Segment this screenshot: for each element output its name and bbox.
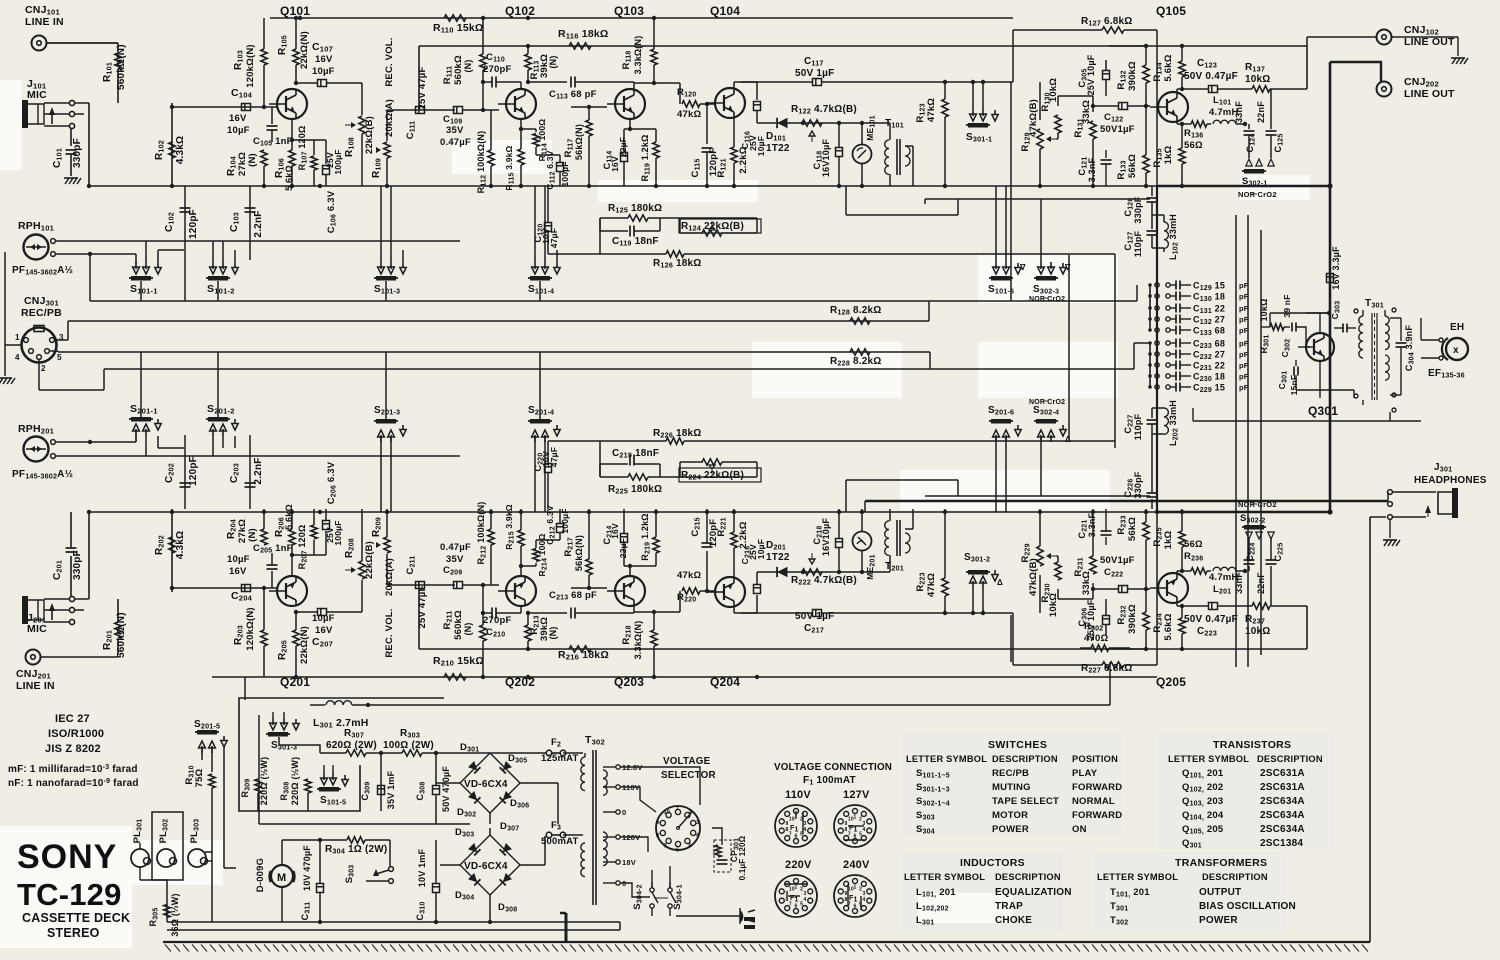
resistor R125 xyxy=(600,203,757,221)
svg-text:10kΩ: 10kΩ xyxy=(1259,298,1269,321)
capacitor C118 xyxy=(812,509,843,572)
transistor Q102 xyxy=(498,89,536,119)
resistor R107 xyxy=(292,509,317,569)
wire collector Q105 xyxy=(1177,603,1208,608)
svg-text:47kΩ: 47kΩ xyxy=(677,570,701,581)
switch S101-5 xyxy=(317,765,348,807)
svg-text:1: 1 xyxy=(676,806,679,812)
svg-text:R204: R204 xyxy=(226,519,238,539)
emitter resistor R115 xyxy=(504,119,524,191)
capacitor C311 xyxy=(300,840,324,922)
resistor R131 xyxy=(1073,509,1096,599)
switch S302-4 xyxy=(1029,399,1071,444)
switch S302-2 xyxy=(1238,500,1277,539)
svg-text:F1 100mAT: F1 100mAT xyxy=(803,775,856,787)
label VOLTAGE CONNECTION xyxy=(774,762,892,787)
svg-text:C203: C203 xyxy=(229,463,241,483)
svg-text:S301-1: S301-1 xyxy=(966,132,992,144)
svg-text:R105: R105 xyxy=(277,35,289,55)
svg-text:Q205: Q205 xyxy=(1156,675,1186,689)
svg-text:6: 6 xyxy=(676,848,679,854)
pot R122 xyxy=(791,553,857,587)
svg-text:7: 7 xyxy=(789,832,792,838)
table SWITCHES xyxy=(906,739,1118,764)
wire osc connections xyxy=(1193,311,1421,430)
wire J101 to bus xyxy=(72,103,91,188)
svg-text:10µF: 10µF xyxy=(312,66,335,77)
wire feedback to stage xyxy=(600,441,757,509)
svg-text:110pF: 110pF xyxy=(1133,413,1143,440)
svg-text:ISO/R1000: ISO/R1000 xyxy=(48,728,104,740)
svg-text:R101: R101 xyxy=(102,62,114,82)
svg-text:1T22: 1T22 xyxy=(766,552,790,563)
svg-text:5.6kΩ: 5.6kΩ xyxy=(284,165,294,191)
resistor R105 xyxy=(277,18,310,85)
jack J201 MIC xyxy=(22,596,75,635)
resistor R102 xyxy=(154,136,186,164)
svg-text:D101: D101 xyxy=(766,131,786,143)
svg-text:R225 180kΩ: R225 180kΩ xyxy=(608,484,662,496)
svg-text:ON: ON xyxy=(1072,824,1087,835)
switch S201-2 xyxy=(206,403,238,456)
svg-text:10µF: 10µF xyxy=(312,613,335,624)
svg-text:S302-3: S302-3 xyxy=(1033,284,1059,296)
switch S201-1 xyxy=(129,403,184,456)
connector CNJ301 REC/PB xyxy=(15,295,64,373)
svg-text:4.3kΩ: 4.3kΩ xyxy=(175,531,186,559)
svg-text:INDUCTORS: INDUCTORS xyxy=(960,857,1025,869)
capacitor C105 xyxy=(253,543,293,588)
resistor R131 xyxy=(1073,96,1096,186)
resistor R113 xyxy=(525,44,558,84)
svg-text:R216 18kΩ: R216 18kΩ xyxy=(558,649,609,662)
svg-text:PLAY: PLAY xyxy=(1072,768,1098,779)
svg-text:1kΩ: 1kΩ xyxy=(1163,530,1174,549)
svg-text:2SC631A: 2SC631A xyxy=(1260,782,1305,793)
label Q103 xyxy=(614,4,644,18)
svg-text:R205: R205 xyxy=(277,640,289,660)
rectifier bridge D301 D302 D305 D306 xyxy=(436,742,558,824)
volume R108 xyxy=(344,83,375,186)
volume R109 REC VOL xyxy=(371,37,395,186)
capacitor C231 xyxy=(1148,361,1249,373)
svg-text:R227 6.8kΩ: R227 6.8kΩ xyxy=(1081,663,1132,675)
svg-text:Q201: Q201 xyxy=(280,675,310,689)
volume R108 xyxy=(344,509,375,612)
capacitor C109 xyxy=(440,107,499,149)
capacitor C105 xyxy=(253,107,293,148)
svg-text:SELECTOR: SELECTOR xyxy=(661,770,716,781)
capacitor C124 xyxy=(1234,101,1257,158)
svg-text:MIC: MIC xyxy=(27,89,47,101)
capacitor C123 xyxy=(1184,603,1252,638)
resistor R118 xyxy=(621,18,657,83)
resistor R119 xyxy=(640,129,659,186)
svg-text:110pF: 110pF xyxy=(1133,230,1143,257)
resistor R303 xyxy=(381,728,455,760)
table row T301 xyxy=(1110,901,1296,913)
svg-text:1: 1 xyxy=(15,333,20,342)
svg-text:22nF: 22nF xyxy=(1256,101,1266,123)
table INDUCTORS xyxy=(904,857,1061,882)
svg-text:2SC631A: 2SC631A xyxy=(1260,768,1305,779)
svg-text:S101-4: S101-4 xyxy=(528,284,554,296)
capacitor C201 xyxy=(52,512,83,596)
svg-text:50V 470µF: 50V 470µF xyxy=(441,766,451,812)
svg-text:REC/PB: REC/PB xyxy=(21,307,62,319)
svg-text:S101-3: S101-3 xyxy=(374,284,400,296)
svg-text:0.47µF: 0.47µF xyxy=(440,137,471,148)
svg-text:VOLTAGE: VOLTAGE xyxy=(663,756,711,767)
svg-text:CASSETTE DECK: CASSETTE DECK xyxy=(22,911,130,925)
switch S304-2 xyxy=(632,882,658,916)
svg-text:75Ω: 75Ω xyxy=(194,768,205,787)
capacitor C102 xyxy=(164,435,199,509)
svg-text:(N): (N) xyxy=(247,528,258,542)
svg-text:2SC634A: 2SC634A xyxy=(1260,796,1305,807)
svg-text:C123: C123 xyxy=(1197,58,1217,70)
capacitor C115 xyxy=(690,104,719,186)
svg-text:C105 1nF: C105 1nF xyxy=(253,136,293,148)
wire trap row ch2 xyxy=(1152,408,1164,481)
svg-text:D-009G: D-009G xyxy=(255,858,266,892)
svg-text:4: 4 xyxy=(15,353,20,362)
capacitor C104 xyxy=(227,87,253,136)
capacitor C233 xyxy=(1148,339,1249,351)
svg-text:R125 180kΩ: R125 180kΩ xyxy=(608,203,662,215)
svg-text:10V 470µF: 10V 470µF xyxy=(302,845,312,891)
svg-text:10: 10 xyxy=(848,816,854,822)
resistor R118 xyxy=(621,612,657,677)
wire selector to transformer xyxy=(620,866,670,888)
capacitor C107 xyxy=(296,609,362,649)
svg-text:10: 10 xyxy=(789,886,795,892)
capacitor C127 xyxy=(1123,215,1158,257)
svg-text:R137: R137 xyxy=(1245,62,1265,74)
capacitor C106 xyxy=(314,140,343,233)
label Q105 xyxy=(1156,4,1186,18)
svg-text:2SC634A: 2SC634A xyxy=(1260,810,1305,821)
resistor R134 xyxy=(1152,606,1185,649)
connector CNJ102 LINE OUT xyxy=(1307,24,1455,48)
svg-text:Q104: Q104 xyxy=(710,4,740,18)
resistor R111 xyxy=(442,18,486,112)
resistor R102 xyxy=(154,531,186,559)
svg-text:JIS Z 8202: JIS Z 8202 xyxy=(45,743,101,755)
transistor Q105 xyxy=(1150,92,1188,122)
wire bottom frame xyxy=(163,941,1370,943)
svg-text:Q105: Q105 xyxy=(1156,4,1186,18)
resistor R101 xyxy=(102,43,127,103)
switch S301-2 xyxy=(964,552,1003,615)
svg-text:TAPE SELECT: TAPE SELECT xyxy=(992,796,1059,807)
svg-text:5: 5 xyxy=(800,902,803,908)
svg-text:FORWARD: FORWARD xyxy=(1072,782,1122,793)
svg-text:8: 8 xyxy=(656,833,659,839)
wire CNJ301 pins to buses xyxy=(5,252,104,390)
capacitor C309 xyxy=(360,770,396,811)
table row S304 xyxy=(916,824,1087,836)
wire bias line xyxy=(419,46,1146,107)
svg-text:620Ω (2W): 620Ω (2W) xyxy=(326,740,377,751)
svg-text:FORWARD: FORWARD xyxy=(1072,810,1122,821)
svg-text:4: 4 xyxy=(863,827,866,833)
wire headphone feed bold xyxy=(865,492,1388,512)
capacitor C124 xyxy=(1234,537,1257,594)
svg-text:270pF: 270pF xyxy=(483,64,511,75)
svg-text:C102: C102 xyxy=(164,212,176,232)
capacitor C104 xyxy=(227,554,253,603)
erase head EH EF135-36 xyxy=(1401,318,1468,380)
wire supply rail ch2 xyxy=(212,675,1157,700)
table row L301 xyxy=(916,915,1032,927)
volume R109 REC VOL xyxy=(371,509,395,658)
svg-text:5.6kΩ: 5.6kΩ xyxy=(1163,54,1174,81)
svg-text:R224 22kΩ(B): R224 22kΩ(B) xyxy=(681,470,744,482)
svg-text:C206 6.3V: C206 6.3V xyxy=(326,461,338,504)
capacitor C125 xyxy=(1245,537,1285,606)
svg-text:LETTER SYMBOL: LETTER SYMBOL xyxy=(906,754,987,764)
svg-text:6: 6 xyxy=(854,904,857,910)
svg-text:S201-5: S201-5 xyxy=(194,719,220,731)
svg-text:10µF: 10µF xyxy=(227,554,250,565)
svg-text:22kΩ(B): 22kΩ(B) xyxy=(364,116,375,154)
svg-text:REC/PB: REC/PB xyxy=(992,768,1029,779)
rec/play head ME101 xyxy=(853,509,877,580)
capacitor C305 xyxy=(1077,54,1110,96)
svg-text:STEREO: STEREO xyxy=(47,926,100,940)
svg-text:50V1µF: 50V1µF xyxy=(1100,555,1135,566)
svg-text:35V: 35V xyxy=(446,125,464,136)
wire RPH201 to switches xyxy=(55,301,460,456)
wire NOR route ch1 xyxy=(846,186,1150,262)
svg-text:10kΩ: 10kΩ xyxy=(1245,74,1271,85)
svg-text:120pF: 120pF xyxy=(188,209,199,239)
capacitor C232 xyxy=(1148,350,1249,362)
capacitor C114 xyxy=(602,119,656,186)
svg-text:R127 6.8kΩ: R127 6.8kΩ xyxy=(1081,16,1132,28)
switch S304-1 xyxy=(654,882,684,916)
svg-text:Q301: Q301 xyxy=(1308,404,1338,418)
svg-text:10kΩ: 10kΩ xyxy=(1048,78,1059,102)
svg-text:R104: R104 xyxy=(226,156,238,176)
svg-text:330pF: 330pF xyxy=(1133,196,1143,223)
logo SONY xyxy=(17,838,117,876)
resistor R112 xyxy=(476,501,494,585)
resistor R114 xyxy=(521,119,549,162)
svg-text:D201: D201 xyxy=(766,540,786,552)
capacitor C132 xyxy=(1148,315,1249,327)
svg-text:S302-4: S302-4 xyxy=(1033,405,1059,417)
switch S101-6 xyxy=(988,186,1026,296)
capacitor C227 xyxy=(1123,408,1158,440)
capacitor C130 xyxy=(1148,292,1249,304)
svg-text:R226 18kΩ: R226 18kΩ xyxy=(653,428,702,440)
svg-text:16V: 16V xyxy=(229,566,247,577)
transistor Q103 xyxy=(607,576,645,606)
capacitor C103 xyxy=(229,186,264,260)
svg-text:25V 47µF: 25V 47µF xyxy=(417,67,428,110)
svg-text:R110 15kΩ: R110 15kΩ xyxy=(433,22,484,35)
table row S301-1~3 xyxy=(916,782,1122,794)
svg-text:10: 10 xyxy=(848,886,854,892)
svg-text:R102: R102 xyxy=(154,140,166,160)
main rail channel1 xyxy=(88,184,1332,188)
lamp PL301 xyxy=(131,819,167,880)
svg-text:2.2nF: 2.2nF xyxy=(253,210,264,237)
svg-text:5: 5 xyxy=(859,832,862,838)
svg-text:4: 4 xyxy=(804,897,807,903)
capacitor C107 xyxy=(296,41,362,87)
wire feedback to stage xyxy=(600,186,757,254)
wire input node xyxy=(170,509,277,592)
svg-text:33nF: 33nF xyxy=(1234,101,1244,123)
svg-text:10: 10 xyxy=(789,816,795,822)
svg-text:3.3nF: 3.3nF xyxy=(1087,157,1097,182)
hatch bottom xyxy=(165,945,1368,952)
capacitor C118 xyxy=(812,123,843,186)
capacitor C115 xyxy=(690,509,719,591)
svg-text:x: x xyxy=(1453,345,1459,356)
switch S302-1 xyxy=(1238,159,1277,199)
resistor R111 xyxy=(442,583,486,677)
svg-text:LETTER SYMBOL: LETTER SYMBOL xyxy=(904,872,985,882)
table row T302 xyxy=(1110,915,1238,927)
label Q101 xyxy=(280,4,310,18)
svg-text:6: 6 xyxy=(854,834,857,840)
svg-text:Q103: Q103 xyxy=(614,4,644,18)
svg-text:0.47µF: 0.47µF xyxy=(440,542,471,553)
svg-text:240V: 240V xyxy=(843,859,870,871)
wire base Q103 xyxy=(571,105,607,109)
fuse F3 xyxy=(520,820,583,865)
svg-text:56kΩ(N): 56kΩ(N) xyxy=(574,535,584,571)
svg-text:C217: C217 xyxy=(804,623,824,635)
table row T101, 201 xyxy=(1110,887,1241,899)
fuse F2 xyxy=(490,737,583,764)
svg-text:(N): (N) xyxy=(548,55,558,68)
svg-text:47µF: 47µF xyxy=(549,228,559,248)
wire capbank feed xyxy=(1149,285,1151,387)
label Q102 xyxy=(505,675,535,689)
resistor R106 xyxy=(274,119,295,191)
voltage connection 127V xyxy=(834,789,876,847)
svg-text:4.3kΩ: 4.3kΩ xyxy=(175,136,186,164)
resistor R132 xyxy=(1116,587,1149,649)
table TRANSISTORS xyxy=(1168,739,1323,764)
wire RPH101 to switches xyxy=(55,241,460,301)
svg-text:(N): (N) xyxy=(463,622,473,635)
label Q104 xyxy=(710,675,740,689)
svg-text:25V 47µF: 25V 47µF xyxy=(417,586,428,629)
svg-text:DESCRIPTION: DESCRIPTION xyxy=(1257,754,1323,764)
pot R129 xyxy=(1020,82,1056,186)
svg-text:C117: C117 xyxy=(804,56,824,68)
capacitor C122 xyxy=(1093,555,1150,593)
resistor R133 xyxy=(1116,106,1149,186)
svg-text:22µF: 22µF xyxy=(618,538,628,558)
resistor R305 xyxy=(148,893,180,936)
wire collector Q103 xyxy=(634,81,680,104)
svg-text:Δ: Δ xyxy=(1065,435,1071,444)
transistor Q104 xyxy=(707,88,745,118)
resistor R137 xyxy=(1245,62,1307,92)
svg-text:16V: 16V xyxy=(315,54,333,65)
switch S101-2 xyxy=(206,250,238,296)
resistor R120 xyxy=(677,570,709,604)
capacitor CP301 xyxy=(714,835,747,880)
capacitor C306 xyxy=(1077,599,1110,640)
svg-text:39 nF: 39 nF xyxy=(1282,294,1292,317)
svg-text:C223: C223 xyxy=(1197,626,1217,638)
resistor R107 xyxy=(292,126,317,186)
switch S201-3 xyxy=(374,405,406,512)
svg-text:35V 1mF: 35V 1mF xyxy=(386,770,396,809)
resistor R104 xyxy=(226,509,267,588)
resistor R121 xyxy=(716,509,749,577)
resistor R126 xyxy=(548,428,1115,444)
svg-text:DESCRIPTION: DESCRIPTION xyxy=(995,872,1061,882)
wire coupling to stage2 xyxy=(362,585,455,612)
transistor Q102 xyxy=(498,576,536,606)
pot R122 xyxy=(791,104,857,142)
svg-text:56Ω: 56Ω xyxy=(1184,539,1203,550)
wire Q105 box xyxy=(1109,606,1307,651)
resistor R125 xyxy=(600,474,757,496)
svg-text:330pF: 330pF xyxy=(72,138,83,168)
resistor R130 xyxy=(1040,556,1093,617)
capacitor C122 xyxy=(1093,103,1150,136)
table row L102,202 xyxy=(916,901,1023,913)
svg-text:NOR CrO2: NOR CrO2 xyxy=(1029,296,1065,303)
resistor R120 xyxy=(677,87,709,120)
svg-text:DESCRIPTION: DESCRIPTION xyxy=(1202,872,1268,882)
transistor Q301 xyxy=(1298,333,1338,418)
connector CNJ201 LINE IN xyxy=(16,650,118,693)
svg-text:mF: 1 millifarad=10-3 farad: mF: 1 millifarad=10-3 farad xyxy=(8,764,138,775)
switch S301-1 xyxy=(966,82,998,144)
capacitor C126 xyxy=(1123,471,1158,509)
svg-text:R124 22kΩ(B): R124 22kΩ(B) xyxy=(681,221,744,233)
svg-text:10µF: 10µF xyxy=(756,539,766,559)
wire collector Q103 xyxy=(634,591,680,614)
svg-text:CHOKE: CHOKE xyxy=(995,915,1032,926)
table row L101, 201 xyxy=(916,887,1072,899)
wire collector coupling row xyxy=(741,80,1013,84)
mark bars xyxy=(744,917,755,929)
svg-text:8: 8 xyxy=(785,897,788,903)
table row Q104, 204 xyxy=(1182,810,1305,822)
logo TC-129 xyxy=(17,877,122,912)
wire osc verticals xyxy=(1236,215,1261,667)
svg-text:TRANSFORMERS: TRANSFORMERS xyxy=(1175,857,1267,869)
resistor R121 xyxy=(716,118,749,186)
jack J101 MIC xyxy=(22,78,75,129)
capacitor C121 xyxy=(1077,509,1112,545)
svg-text:PF145-3602A½: PF145-3602A½ xyxy=(12,469,73,481)
svg-text:120pF: 120pF xyxy=(188,456,199,486)
svg-text:50V 0.47µF: 50V 0.47µF xyxy=(1184,71,1238,82)
svg-text:R116 18kΩ: R116 18kΩ xyxy=(558,28,609,41)
switch S201-4 xyxy=(528,405,560,512)
capacitor C110 xyxy=(483,52,521,89)
svg-text:560kΩ(N): 560kΩ(N) xyxy=(116,612,127,658)
svg-text:100µF: 100µF xyxy=(560,508,570,533)
svg-text:47kΩ(B): 47kΩ(B) xyxy=(1028,558,1039,596)
wire output row xyxy=(757,570,890,574)
label Q104 xyxy=(710,4,740,18)
transistor Q101 xyxy=(269,89,307,119)
